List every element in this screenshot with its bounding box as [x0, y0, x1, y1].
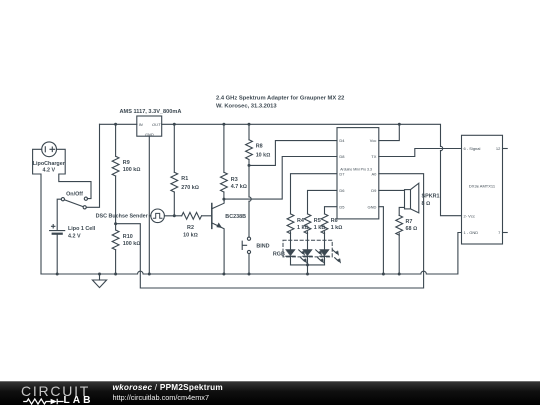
svg-text:10 kΩ: 10 kΩ [183, 232, 198, 238]
label R6 1 kOhm [331, 218, 343, 231]
footer bar [0, 381, 540, 405]
resistor R5 [304, 214, 311, 250]
voltage regulator U2 AMS 1117 [137, 116, 162, 136]
wire switch left to battery [57, 199, 61, 230]
ground [92, 274, 106, 288]
svg-text:BC238B: BC238B [225, 214, 246, 220]
wire hop ground rail over sense wire [138, 271, 144, 274]
label R3 4.7 kOhm [231, 177, 247, 190]
svg-text:100 kΩ: 100 kΩ [123, 167, 141, 173]
label R2 10 kOhm [183, 225, 198, 238]
wire battery minus to ground rail [56, 235, 58, 274]
svg-text:LipoCharger: LipoCharger [33, 161, 66, 167]
resistor R8 [246, 124, 253, 165]
svg-text:R7: R7 [406, 219, 413, 225]
resistor R6 [321, 214, 328, 250]
resistor R1 [171, 124, 178, 216]
dashed enclosure RGB LED module [283, 240, 332, 257]
svg-text:2- Vcc: 2- Vcc [464, 213, 475, 218]
wire Arduino Vcc to 3.3V rail [379, 124, 400, 140]
wire R6 top to Arduino D5 [325, 207, 338, 214]
svg-text:D5: D5 [339, 204, 345, 209]
LED D2 green [303, 250, 324, 265]
resistor R10 [112, 224, 119, 274]
svg-text:SPKR1: SPKR1 [422, 194, 440, 200]
node battery sense junction [114, 222, 117, 225]
label R7 68 Ohm [406, 219, 418, 232]
resistor R4 [287, 214, 294, 250]
wire 3.3V rail from AMS OUT to DX3e Vcc [162, 124, 462, 215]
svg-text:AMS 1117, 3.3V_800mA: AMS 1117, 3.3V_800mA [120, 109, 182, 115]
svg-text:On/Off: On/Off [66, 191, 83, 197]
svg-text:RGB: RGB [273, 252, 285, 258]
label SPKR1 8 Ohm [422, 194, 440, 207]
wire R8 bottom to Arduino D4 [249, 141, 337, 166]
node junction dots [56, 123, 401, 276]
svg-text:4.7 kΩ: 4.7 kΩ [231, 184, 247, 190]
svg-text:A0: A0 [371, 171, 377, 176]
square wave source V2 DSC Buchse Sender [149, 209, 174, 223]
pin 12 stub [503, 148, 508, 150]
label LipoCharger 4.2 V [33, 161, 66, 174]
svg-text:68 Ω: 68 Ω [406, 226, 418, 232]
svg-text:6 - Signal: 6 - Signal [464, 146, 481, 151]
label R9 100 kOhm [123, 160, 141, 173]
IC box U3 DX3e AMTX11 [462, 135, 503, 244]
wire speaker bottom to R7 [399, 207, 404, 215]
label DX3e pins [464, 146, 502, 235]
svg-text:12: 12 [496, 146, 501, 151]
pin 7 stub [503, 232, 508, 234]
wire ground rail [41, 233, 462, 275]
svg-text:D7: D7 [339, 171, 345, 176]
label R1 270 kOhm [181, 176, 199, 191]
wire hop BIND net over collector wire [249, 197, 251, 201]
label R10 100 kOhm [123, 234, 141, 247]
svg-text:DX3e AMTX11: DX3e AMTX11 [469, 183, 496, 188]
wire AMS GND pin down to ground rail [148, 136, 150, 274]
wire BIND bottom to ground rail [248, 254, 250, 274]
pushbutton SW2 BIND [242, 237, 250, 254]
svg-text:TX: TX [371, 154, 376, 159]
resistor R9 [112, 124, 119, 223]
svg-text:BIND: BIND [256, 243, 269, 249]
svg-text:R8: R8 [256, 144, 263, 150]
svg-text:R3: R3 [231, 177, 238, 183]
current source U-charger LipoCharger [42, 142, 57, 157]
title text [216, 96, 344, 110]
switch SW On/Off [61, 197, 87, 209]
svg-text:R1: R1 [181, 176, 188, 182]
svg-text:OUT: OUT [152, 122, 161, 127]
resistor R3 [220, 124, 227, 199]
svg-text:R5: R5 [314, 218, 321, 224]
svg-text:DSC Buchse Sender: DSC Buchse Sender [96, 214, 149, 220]
svg-text:1 - GND: 1 - GND [464, 230, 479, 235]
wire R4 top to Arduino D7 [291, 174, 338, 214]
wire top rail 4.2V to AMS IN [100, 123, 137, 125]
svg-text:Vcc: Vcc [370, 138, 377, 143]
svg-text:D8: D8 [339, 154, 345, 159]
wire battery sense tap R9/R10 to A0 net (lower run) [116, 174, 424, 288]
logo resistor-diode squiggle [23, 399, 63, 405]
label R4 1 kOhm [297, 218, 309, 231]
footer text [113, 383, 223, 392]
wire R8/BIND vertical with hop over D8 net [248, 165, 250, 237]
svg-text:Lipo 1 Cell: Lipo 1 Cell [68, 226, 96, 232]
svg-text:W. Korosec, 31.3.2013: W. Korosec, 31.3.2013 [216, 104, 277, 110]
transistor Q1 BC238B [212, 199, 224, 274]
svg-text:R10: R10 [123, 234, 133, 240]
wire hop 3.3V riser over TX wire [441, 146, 443, 150]
svg-text:2.4 GHz Spektrum Adapter for G: 2.4 GHz Spektrum Adapter for Graupner MX… [216, 96, 344, 102]
wire LED cathode bus to ground rail [291, 265, 325, 274]
wire collector node to D8 staircase [224, 157, 337, 200]
wire LipoCharger right to switch top terminal [57, 149, 92, 198]
svg-text:D4: D4 [339, 138, 345, 143]
svg-text:R4: R4 [297, 218, 304, 224]
wire LipoCharger left to ground rail [33, 149, 42, 274]
wire Arduino D9 to speaker [379, 189, 405, 191]
svg-text:D6: D6 [339, 188, 345, 193]
wire switch bottom terminal to AMS input riser [86, 124, 99, 207]
svg-text:7: 7 [498, 230, 501, 235]
LED D1 red [286, 250, 307, 265]
wire hop ground rail over A0 riser [421, 271, 427, 274]
svg-text:1 kΩ: 1 kΩ [331, 225, 343, 231]
label R8 10 kOhm [256, 144, 271, 159]
battery V1 Lipo 1 Cell [50, 225, 65, 234]
svg-text:270 kΩ: 270 kΩ [181, 185, 199, 191]
svg-text:R2: R2 [187, 225, 194, 231]
resistor R7 [396, 215, 403, 274]
svg-text:4.2 V: 4.2 V [43, 168, 56, 174]
label Lipo 1 Cell 4.2 V [68, 226, 96, 239]
svg-text:D9: D9 [371, 188, 377, 193]
LED D3 blue [320, 250, 341, 265]
wire Arduino GND to ground rail [379, 207, 384, 274]
wire Arduino TX to DX3e Signal [379, 149, 462, 157]
svg-text:4.2 V: 4.2 V [68, 233, 81, 239]
svg-text:100 kΩ: 100 kΩ [123, 241, 141, 247]
label Arduino pins [339, 138, 377, 209]
svg-text:8 Ω: 8 Ω [422, 201, 431, 207]
label AMS 1117, 3.3V_800mA [120, 109, 182, 137]
svg-text:10 kΩ: 10 kΩ [256, 153, 271, 159]
node LED bus junction [306, 263, 309, 266]
logo CIRCUIT LAB [21, 383, 90, 399]
speaker SPKR1 [405, 183, 419, 213]
svg-text:Arduino Mini Pro 3.3: Arduino Mini Pro 3.3 [340, 168, 372, 172]
resistor R2 [174, 212, 212, 219]
svg-text:R9: R9 [123, 160, 130, 166]
svg-text:IN: IN [139, 122, 143, 127]
op-amp box U1 Arduino Mini Pro 3.3 [337, 128, 379, 219]
svg-text:GND: GND [368, 204, 377, 209]
label R5 1 kOhm [314, 218, 326, 231]
wire R5 top to Arduino D6 [308, 190, 338, 214]
